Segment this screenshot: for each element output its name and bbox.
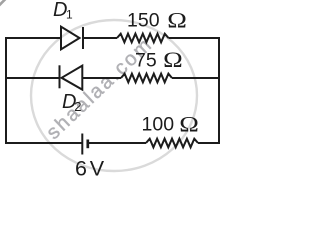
svg-text:Ω: Ω (163, 48, 183, 72)
svg-text:6: 6 (75, 157, 87, 179)
svg-text:Ω: Ω (167, 8, 187, 32)
wire bottom: battery to 100ohm (88, 142, 146, 144)
wire middle: D2 anode to 75ohm (83, 77, 121, 79)
wire left vertical (5, 37, 7, 144)
svg-text:Ω: Ω (179, 112, 199, 136)
diode D1 cathode bar (82, 27, 84, 49)
watermark fragment top-left corner (0, 0, 6, 6)
svg-text:100: 100 (142, 114, 175, 136)
svg-text:1: 1 (66, 8, 73, 22)
wire middle: 75ohm to right rail (172, 77, 219, 79)
svg-text:150: 150 (127, 10, 160, 32)
diode D2 triangle (62, 66, 83, 90)
resistor 150 ohm (117, 34, 169, 43)
wire top: D1 cathode to 150ohm (83, 37, 117, 39)
diode D1 triangle (61, 27, 80, 50)
wire bottom: left rail to battery (5, 142, 82, 144)
battery short plate (86, 140, 89, 149)
svg-text:V: V (90, 157, 105, 179)
svg-text:75: 75 (135, 49, 157, 71)
resistor 100 ohm (146, 139, 198, 148)
wire top: left segment to D1 anode (5, 37, 61, 39)
svg-text:2: 2 (74, 99, 81, 114)
wire middle: left rail to D2 cathode (6, 77, 60, 79)
watermark circle (31, 20, 197, 171)
resistor 75 ohm (121, 74, 172, 83)
battery long plate (81, 134, 83, 155)
wire bottom: 100ohm to right rail (198, 142, 220, 144)
wire right vertical (218, 37, 220, 144)
wire top: 150ohm to right rail (169, 37, 221, 39)
diode D2 cathode bar (59, 65, 61, 88)
